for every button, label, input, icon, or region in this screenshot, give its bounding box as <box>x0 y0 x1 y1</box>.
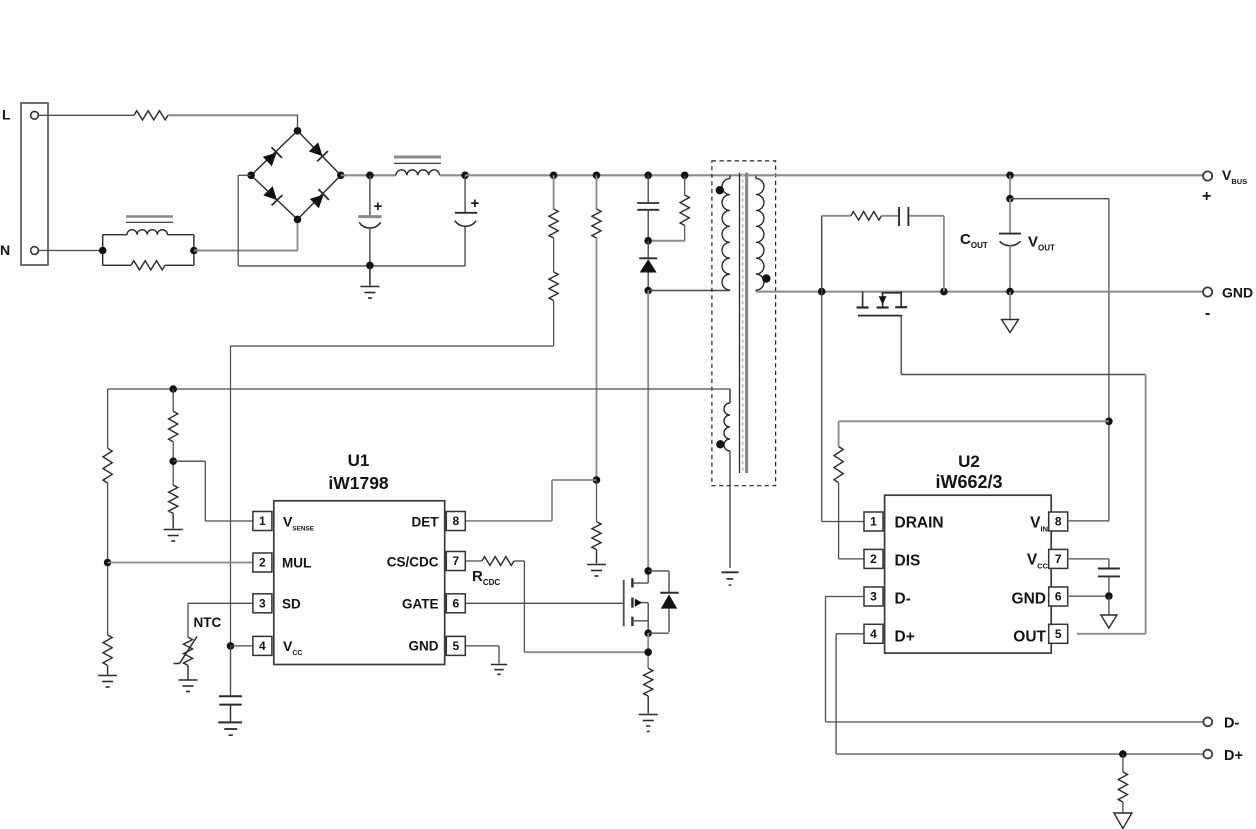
ground primary GND1 <box>360 265 379 298</box>
node bridge DC plus right <box>337 172 345 180</box>
resistor R9 <box>169 411 178 441</box>
resistor R7 <box>103 448 112 483</box>
line filter L1 inductor <box>103 230 194 266</box>
wire bus to resistor R2 <box>553 175 555 209</box>
transformer T1 auxiliary phase dot <box>716 440 724 448</box>
label COUT <box>960 231 988 250</box>
terminal GND <box>1203 287 1212 296</box>
wire U2 pin 8 VIN <box>1069 520 1109 522</box>
node N-filter right junction <box>190 247 198 255</box>
bulk capacitor C2 <box>455 175 477 266</box>
wire main bus to transformer primary <box>465 174 756 176</box>
node C1 top <box>366 172 374 180</box>
wire VIN feed to U2 <box>1010 199 1109 521</box>
svg-text:D-: D- <box>895 591 911 608</box>
wire R4 to DET tap <box>596 238 598 480</box>
line filter damping resistor R1 <box>103 261 194 270</box>
transformer T1 secondary winding <box>756 175 764 291</box>
node clamp junction <box>644 237 652 245</box>
bridge diode D2 upper-right <box>308 142 328 162</box>
svg-text:L: L <box>2 107 11 123</box>
svg-text:D+: D+ <box>895 629 915 646</box>
op-amp U2 iW662/3 body <box>885 495 1052 653</box>
svg-text:DIS: DIS <box>895 553 921 570</box>
node bridge AC bottom <box>294 216 302 224</box>
wire R8 to ground <box>107 665 109 674</box>
svg-text:iW1798: iW1798 <box>328 473 389 493</box>
U1 label DET <box>412 515 440 530</box>
resistor R4 <box>592 209 601 238</box>
transformer T1 primary phase dot <box>716 186 724 194</box>
svg-text:iW662/3: iW662/3 <box>935 472 1002 492</box>
node N-filter left junction <box>99 247 107 255</box>
svg-text:2: 2 <box>259 556 266 570</box>
node COUT bottom <box>1006 288 1014 296</box>
wire clamp cap to resistor <box>648 240 685 242</box>
ground below C8 <box>218 722 242 735</box>
svg-text:+: + <box>1202 188 1211 205</box>
snubber resistor R12 <box>822 212 882 292</box>
wire R5 to ground <box>596 550 598 564</box>
transformer T1 primary winding <box>722 175 730 290</box>
U2 pin 3 <box>864 587 883 606</box>
U1 label VSENSE <box>283 514 315 533</box>
svg-text:1: 1 <box>259 514 266 528</box>
capacitor C8 on VCC <box>219 646 242 722</box>
U2 label GND <box>1012 591 1046 608</box>
U2 label DRAIN <box>895 515 944 532</box>
svg-text:DRAIN: DRAIN <box>895 515 944 532</box>
svg-text:7: 7 <box>1055 552 1062 566</box>
U2 pin 8 <box>1049 512 1068 531</box>
svg-text:2: 2 <box>870 552 877 566</box>
terminal VBUS <box>1203 171 1212 180</box>
node aux line R9 tap <box>169 385 177 393</box>
sense resistor R11 <box>644 668 653 696</box>
wire secondary bottom to GND terminal <box>756 291 1203 293</box>
pull-down resistor R14 <box>1118 754 1127 802</box>
wire DET tap to U1 pin 8 <box>466 480 597 521</box>
node C1 bottom junction <box>366 262 374 270</box>
wire RCDC to current sense node <box>514 561 648 652</box>
connector J1 AC input terminal block <box>21 103 48 265</box>
label D+ <box>1224 748 1243 764</box>
line filter L1 core <box>126 217 173 223</box>
node current sense junction <box>644 648 652 656</box>
wire L terminal to fuse <box>39 114 134 116</box>
wire DET tap to R5 <box>596 480 598 522</box>
wire NTC to ground <box>187 665 189 679</box>
label NTC <box>194 615 222 630</box>
resistor R3 <box>549 272 558 301</box>
svg-text:6: 6 <box>1055 590 1062 604</box>
wire aux line to resistor R9 <box>172 389 174 411</box>
node bus snubber resistor tap <box>681 172 689 180</box>
label minus output <box>1205 305 1210 322</box>
ground below R8 <box>98 676 117 688</box>
node MUL divider tap <box>104 559 112 567</box>
node C2 top <box>461 172 469 180</box>
svg-text:8: 8 <box>1055 515 1062 529</box>
wire bridge minus to ground rail <box>238 175 251 266</box>
ground below R5 <box>587 565 606 577</box>
svg-text:MUL: MUL <box>282 555 311 570</box>
wire R7 to MUL node <box>107 483 109 635</box>
label VOUT <box>1028 234 1055 253</box>
label GND output <box>1222 285 1253 301</box>
U1 pin 2 <box>253 553 272 572</box>
svg-text:5: 5 <box>1055 627 1062 641</box>
wire VBUS tap to VIN feed <box>1009 175 1011 198</box>
wire U1 pin 6 GATE to Q1 gate <box>465 602 623 604</box>
svg-text:-: - <box>1205 305 1210 322</box>
svg-text:1: 1 <box>870 515 877 529</box>
wire VCC junction to U1 pin 4 <box>231 645 253 647</box>
ground below R10 <box>164 530 183 542</box>
svg-text:4: 4 <box>870 627 877 641</box>
U1 pin 7 <box>446 552 465 571</box>
clamp diode D5 <box>639 241 657 291</box>
wire filter to bridge bottom <box>194 219 298 250</box>
wire N terminal to line filter <box>39 250 103 252</box>
node DET tap <box>593 476 601 484</box>
node Q1 source <box>644 629 652 637</box>
label RCDC <box>472 568 500 587</box>
U1 label GATE <box>402 597 439 612</box>
node VBUS COUT tap <box>1006 172 1014 180</box>
U1 pin 3 <box>253 594 272 613</box>
transformer T1 secondary phase dot <box>762 274 770 282</box>
wire NTC to U1 pin 3 <box>188 603 253 637</box>
bridge diode D4 bottom-right <box>309 189 329 209</box>
ground U2 signal ground <box>1101 596 1117 628</box>
node primary switch node <box>644 287 652 295</box>
resistor R13 <box>834 447 843 483</box>
U2 label D+ <box>895 629 915 646</box>
wire Q2 gate to U2 OUT <box>901 316 1145 634</box>
label U2 <box>958 452 980 471</box>
label C1 plus <box>374 198 383 215</box>
terminal N <box>31 247 39 255</box>
svg-text:SD: SD <box>282 597 301 612</box>
svg-text:GATE: GATE <box>402 597 439 612</box>
label iW1798 <box>328 473 389 493</box>
svg-text:+: + <box>471 195 480 212</box>
svg-text:8: 8 <box>452 514 459 528</box>
U1 label MUL <box>282 555 311 570</box>
wire U2 pin 6 to ground node <box>1069 595 1109 597</box>
wire R9 to R10 <box>172 442 174 485</box>
node U2 supply tap <box>1105 418 1113 426</box>
label N <box>0 242 10 258</box>
U2 label DIS <box>895 553 921 570</box>
capacitor COUT <box>999 199 1021 292</box>
U2 pin 1 <box>864 512 883 531</box>
svg-text:GND: GND <box>1222 285 1253 301</box>
label D- <box>1224 716 1239 732</box>
U2 pin 7 <box>1049 549 1068 568</box>
svg-text:D+: D+ <box>1224 748 1243 764</box>
fuse resistor F1 <box>134 111 168 120</box>
transformer T1 shield box <box>712 161 776 486</box>
label U1 <box>348 451 370 470</box>
wire U2 pin 1 to Q2 drain rail <box>822 292 864 522</box>
U2 label VCC <box>1027 552 1049 571</box>
svg-text:7: 7 <box>452 554 459 568</box>
wire R2 to R3 <box>553 238 555 272</box>
wire R10 to ground <box>172 513 174 528</box>
node VIN feed junction <box>1006 195 1014 203</box>
U1 pin 4 <box>253 636 272 655</box>
svg-text:5: 5 <box>452 639 459 653</box>
op-amp U1 iW1798 body <box>274 501 445 665</box>
svg-text:D-: D- <box>1224 716 1239 732</box>
ground D+ signal ground <box>1114 802 1132 829</box>
node bus R2 tap <box>550 172 558 180</box>
transformer T1 core <box>740 173 747 473</box>
U2 pin 4 <box>864 624 883 643</box>
node snubber right junction <box>940 288 948 296</box>
label L <box>2 107 11 123</box>
clamp resistor R6 <box>680 175 689 240</box>
U1 label VCC <box>283 638 302 657</box>
bulk capacitor C1 <box>358 175 381 265</box>
wire Vsense tap to U1 pin 1 <box>173 461 253 521</box>
wire R13 to U2 pin 2 <box>839 483 865 559</box>
label C2 plus <box>471 195 480 212</box>
wire clamp to transformer primary bottom <box>648 290 730 292</box>
resistor RCDC <box>482 557 514 566</box>
svg-text:3: 3 <box>259 596 266 610</box>
node bus R4 tap <box>593 172 601 180</box>
wire supply tap to DIS network <box>839 421 1109 446</box>
thermistor NTC RT1 <box>174 637 198 666</box>
resistor R5 <box>592 522 601 550</box>
wire U2 pin 3 to D- terminal <box>826 597 1204 722</box>
wire R3 to U1 sense feed <box>231 301 554 646</box>
U2 pin 5 <box>1049 624 1068 643</box>
wire U2 pin 4 to D+ terminal <box>836 634 1203 754</box>
ground below NTC <box>179 680 198 692</box>
svg-text:DET: DET <box>412 515 440 530</box>
wire MUL tap to U1 pin 2 <box>108 562 253 564</box>
node snubber left junction <box>818 288 826 296</box>
snubber capacitor C4 <box>881 207 944 292</box>
svg-text:U2: U2 <box>958 452 980 471</box>
bridge diode D3 left-bottom <box>263 186 283 206</box>
svg-text:6: 6 <box>452 596 459 610</box>
transistor Q1 primary MOSFET <box>624 571 649 633</box>
node D+ pull-down tap <box>1119 750 1127 758</box>
wire bridge to bulk capacitor C1 <box>341 174 396 176</box>
terminal D+ <box>1203 750 1212 759</box>
svg-text:NTC: NTC <box>194 615 222 630</box>
U2 label VIN <box>1030 515 1048 534</box>
U2 label OUT <box>1013 629 1046 646</box>
inductor L2 core <box>394 157 441 163</box>
wire fuse to bridge top <box>168 114 298 131</box>
terminal L <box>31 111 39 119</box>
U1 label GND <box>409 639 439 654</box>
wire U2 pin 7 to capacitor C5 <box>1069 559 1109 568</box>
transformer T1 auxiliary winding <box>724 389 730 568</box>
ground below U1 pin 5 <box>491 665 507 675</box>
svg-text:N: N <box>0 242 10 258</box>
inductor L2 <box>396 170 440 175</box>
resistor R2 <box>549 209 558 238</box>
transistor Q2 synchronous rectifier <box>857 292 908 316</box>
U1 pin 8 <box>446 512 465 531</box>
node U1 VCC junction <box>227 642 235 650</box>
node Vsense divider tap <box>169 457 177 465</box>
node bridge DC minus left <box>247 172 255 180</box>
resistor R10 <box>169 485 178 513</box>
U1 pin 5 <box>446 636 465 655</box>
U1 pin 1 <box>253 512 272 531</box>
U1 pin 6 <box>446 594 465 613</box>
capacitor C5 <box>1098 569 1120 597</box>
label iW662/3 <box>935 472 1002 492</box>
node bridge AC top <box>294 127 302 135</box>
bridge rectifier BR1 diamond <box>251 131 341 220</box>
ground below R11 <box>639 715 658 732</box>
svg-text:GND: GND <box>409 639 439 654</box>
body diode D6 of Q1 <box>648 571 679 633</box>
U2 pin 6 <box>1049 587 1068 606</box>
node bus snubber cap tap <box>644 172 652 180</box>
label VBUS <box>1222 167 1247 186</box>
svg-text:4: 4 <box>259 639 266 653</box>
svg-text:U1: U1 <box>348 451 370 470</box>
ground below auxiliary winding <box>722 572 739 585</box>
ground COUT signal ground <box>1002 292 1019 333</box>
U1 label SD <box>282 597 301 612</box>
wire switch node to Q1 drain <box>647 291 649 571</box>
wire secondary top to VBUS terminal <box>756 174 1203 176</box>
resistor R8 <box>103 635 112 665</box>
node Q1 drain <box>644 567 652 575</box>
svg-text:GND: GND <box>1012 591 1046 608</box>
wire Q1 source to sense resistor <box>647 633 649 668</box>
wire auxiliary winding to divider network <box>108 389 730 448</box>
label plus output <box>1202 188 1211 205</box>
U1 label CS/CDC <box>387 555 439 570</box>
svg-text:+: + <box>374 198 383 215</box>
wire bus to resistor R4 <box>596 175 598 209</box>
wire U1 pin 5 to ground <box>465 646 499 664</box>
U2 label D- <box>895 591 911 608</box>
terminal D- <box>1203 718 1212 727</box>
svg-text:3: 3 <box>870 590 877 604</box>
bridge diode D1 lower-left <box>262 147 282 167</box>
node U2 ground junction <box>1105 592 1113 600</box>
svg-text:CS/CDC: CS/CDC <box>387 555 439 570</box>
svg-text:OUT: OUT <box>1013 629 1046 646</box>
U2 pin 2 <box>864 549 883 568</box>
wire L2 to C2 <box>440 174 466 176</box>
wire R11 to ground <box>647 696 649 714</box>
clamp capacitor C3 <box>637 175 659 240</box>
wire primary ground rail <box>238 265 465 267</box>
wire U1 pin 7 to RCDC <box>465 560 482 562</box>
